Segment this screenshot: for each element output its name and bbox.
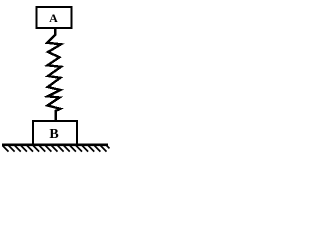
background [0, 0, 110, 164]
svg-text:B: B [49, 127, 58, 142]
ground line [2, 144, 108, 147]
block B (box on ground) [33, 121, 77, 145]
ground hatching [3, 146, 110, 152]
block A (hanging box) [37, 7, 72, 28]
svg-text:A: A [49, 11, 58, 25]
spring (zigzag between A and B) [47, 28, 61, 122]
